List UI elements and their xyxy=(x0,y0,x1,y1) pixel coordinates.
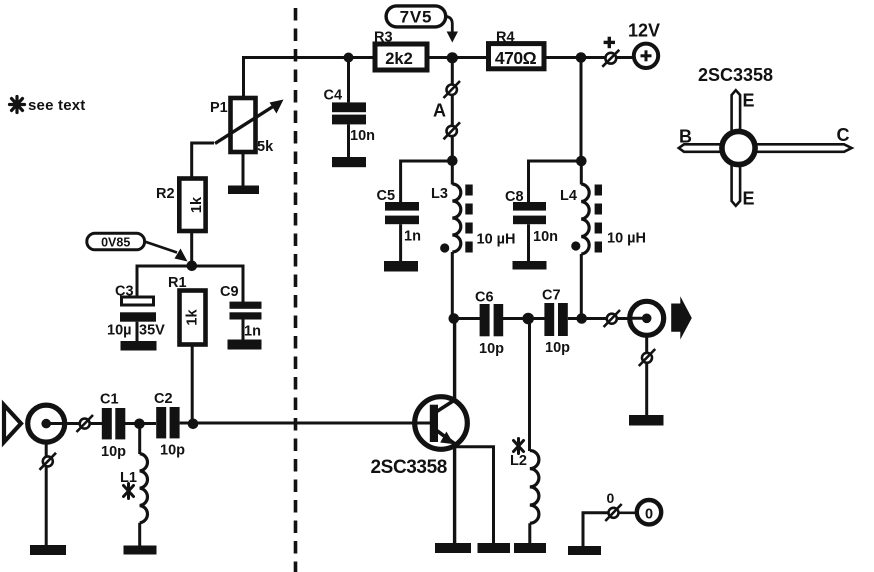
test point input series xyxy=(77,415,94,432)
svg-text:1n: 1n xyxy=(244,324,261,340)
pinout body xyxy=(722,131,755,164)
capacitor C9 xyxy=(220,284,262,340)
wire C5 top xyxy=(401,161,453,203)
capacitor C4 xyxy=(324,58,376,158)
svg-text:L3: L3 xyxy=(431,186,448,202)
svg-text:1k: 1k xyxy=(184,309,200,326)
node L3/C5 junction xyxy=(447,155,458,166)
svg-text:10p: 10p xyxy=(101,444,126,460)
inductor L4 xyxy=(560,161,646,319)
wire rail R4 to supply xyxy=(544,56,634,59)
svg-text:2k2: 2k2 xyxy=(385,50,413,68)
wire bias horizontal xyxy=(137,266,243,302)
capacitor C7 xyxy=(542,288,570,357)
svg-text:10 µH: 10 µH xyxy=(607,231,646,247)
wire P1 to ground xyxy=(242,152,245,186)
svg-text:C4: C4 xyxy=(324,88,343,104)
capacitor C1 xyxy=(100,392,126,461)
wire top rail left xyxy=(244,58,376,99)
capacitor C8 xyxy=(505,189,558,262)
resistor R2 xyxy=(156,179,206,232)
ground terminal 0 xyxy=(568,546,601,555)
wire emitter down xyxy=(453,444,456,544)
resistor R1 xyxy=(168,275,206,345)
svg-text:B: B xyxy=(679,127,692,147)
node collector/C6 junction xyxy=(449,313,460,324)
svg-text:10p: 10p xyxy=(160,443,185,459)
node after C2 xyxy=(188,419,199,430)
svg-text:2SC3358: 2SC3358 xyxy=(698,65,773,85)
shield divider (screen) xyxy=(294,8,298,572)
wire emitter right branch xyxy=(455,447,494,544)
ground input xyxy=(30,545,66,555)
svg-text:C6: C6 xyxy=(475,290,494,306)
ground below output xyxy=(629,415,664,426)
test point output series xyxy=(604,310,620,327)
test point output shield xyxy=(639,349,655,366)
node C1/C2 xyxy=(134,419,145,430)
output arrow xyxy=(671,296,692,339)
wire A branch xyxy=(451,58,454,162)
svg-text:10p: 10p xyxy=(545,340,570,356)
svg-text:7V5: 7V5 xyxy=(400,7,433,26)
svg-text:C: C xyxy=(837,125,850,145)
input connector xyxy=(28,405,65,442)
wire output shield xyxy=(645,335,648,416)
pinout lead C right xyxy=(755,144,852,152)
inductor L2 xyxy=(510,319,539,547)
svg-text:35V: 35V xyxy=(139,323,165,339)
node base bias junction xyxy=(187,261,198,272)
inductor L1 xyxy=(120,424,147,546)
pinout lead B left xyxy=(679,144,722,152)
output connector xyxy=(628,301,664,335)
wire R4 node down to L4 rail xyxy=(580,58,583,162)
wire C1 to C2 xyxy=(125,422,156,425)
svg-text:2SC3358: 2SC3358 xyxy=(371,457,447,478)
node after C7 xyxy=(576,313,587,324)
wire C6 to C7 xyxy=(503,317,545,320)
svg-text:P1: P1 xyxy=(210,100,228,116)
resistor R3 xyxy=(374,30,427,71)
capacitor C2 xyxy=(154,391,185,459)
potentiometer P1 xyxy=(210,98,284,155)
ground below emitter xyxy=(435,543,471,553)
ground below C5 xyxy=(384,261,418,272)
terminal 0 xyxy=(583,490,661,546)
svg-text:0: 0 xyxy=(607,490,615,506)
node L4/C8 junction xyxy=(576,156,587,167)
wire R1 to input line xyxy=(191,345,194,425)
test point A lower xyxy=(444,122,461,139)
svg-text:A: A xyxy=(433,101,446,121)
svg-text:1n: 1n xyxy=(404,229,421,245)
svg-text:470Ω: 470Ω xyxy=(495,48,537,68)
capacitor C5 xyxy=(377,188,421,262)
wire C6 row xyxy=(452,317,480,320)
ground below C8 xyxy=(513,261,547,270)
svg-text:10µ: 10µ xyxy=(107,323,131,339)
test point supply xyxy=(602,50,619,67)
wire C7 to output xyxy=(568,317,647,320)
svg-text:R2: R2 xyxy=(156,186,175,202)
see text note xyxy=(10,97,86,115)
svg-text:0V85: 0V85 xyxy=(101,235,130,249)
ground below C4 xyxy=(332,157,366,167)
pinout lead E top xyxy=(732,90,741,133)
wire C8 top xyxy=(529,161,582,203)
svg-text:C2: C2 xyxy=(154,391,173,407)
ground below L2 xyxy=(514,543,546,553)
svg-text:0: 0 xyxy=(645,507,653,523)
ground below P1 xyxy=(228,186,259,195)
supply terminal 12V xyxy=(628,21,660,68)
svg-text:10 µH: 10 µH xyxy=(477,232,516,248)
wire input shield to ground xyxy=(45,442,48,545)
input arrow xyxy=(4,405,21,442)
capacitor C6 xyxy=(475,290,504,358)
callout 7V5 xyxy=(386,6,458,43)
svg-text:1k: 1k xyxy=(189,196,205,213)
test point A upper xyxy=(444,81,461,98)
pinout lead E bottom xyxy=(732,163,741,206)
inductor L3 xyxy=(431,161,515,319)
svg-text:L4: L4 xyxy=(560,188,577,204)
node after R4 xyxy=(576,52,587,63)
ground emitter branch xyxy=(478,543,511,553)
wire rail R3 to R4 xyxy=(427,56,488,59)
capacitor C3 (electrolytic) xyxy=(107,284,165,342)
svg-text:10n: 10n xyxy=(350,128,375,144)
node C4 junction xyxy=(344,53,354,63)
supply plus sign xyxy=(604,37,615,49)
node C6/C7/L2 xyxy=(522,313,534,325)
svg-text:E: E xyxy=(743,189,755,209)
svg-text:10p: 10p xyxy=(479,341,504,357)
svg-text:C1: C1 xyxy=(100,392,119,408)
wire C2 to base xyxy=(180,422,414,425)
svg-text:C5: C5 xyxy=(377,188,396,204)
pinout 2SC3358 xyxy=(679,65,852,209)
svg-text:5k: 5k xyxy=(257,139,274,155)
svg-text:see text: see text xyxy=(28,97,85,114)
svg-text:C9: C9 xyxy=(220,284,239,300)
ground below C3 xyxy=(121,341,157,351)
svg-text:L2: L2 xyxy=(510,453,527,469)
wire P1 wiper to R2 xyxy=(192,143,214,178)
svg-text:10n: 10n xyxy=(533,229,558,245)
resistor R4 xyxy=(489,30,545,69)
node after R3 xyxy=(447,52,458,63)
test point input shield xyxy=(40,453,57,470)
wire R2 to node xyxy=(190,231,193,266)
ground below C9 xyxy=(228,340,262,350)
wire input to C1 xyxy=(46,422,102,425)
ground below L1 xyxy=(124,546,157,555)
transistor T1 2SC3358 xyxy=(371,319,468,479)
svg-text:E: E xyxy=(743,91,755,111)
callout 0V85 xyxy=(87,233,188,261)
svg-text:12V: 12V xyxy=(628,21,660,41)
svg-text:C7: C7 xyxy=(542,288,561,304)
